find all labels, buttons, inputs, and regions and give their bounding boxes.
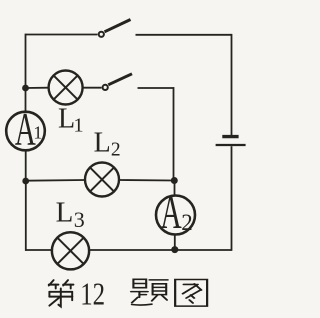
switch S2 — [103, 74, 132, 90]
wire left vertical, top to L1 node — [25, 34, 27, 88]
svg-text:L: L — [56, 197, 74, 229]
svg-text:A: A — [160, 186, 182, 239]
switch S1 — [99, 20, 131, 37]
ammeter A1 — [6, 104, 45, 156]
wire L2 to node — [119, 179, 175, 182]
svg-text:2: 2 — [111, 140, 121, 161]
wire A2 to bottom node — [174, 234, 176, 249]
node: junction of L2 branch — [22, 178, 29, 185]
wire corner down to node — [173, 87, 175, 180]
wire bottom left segment — [25, 249, 52, 251]
caption: 第 (glyph drawn as paths) — [49, 280, 74, 306]
wire bottom middle segment — [89, 249, 175, 251]
caption: 题 (glyph drawn as paths) — [131, 279, 168, 305]
wire node down to A2 — [174, 181, 176, 197]
label L3 — [56, 197, 85, 233]
wire top-right segment — [136, 34, 232, 36]
wire top-left segment — [26, 34, 98, 36]
wire S2 to corner — [138, 87, 174, 89]
battery B1 — [216, 137, 246, 145]
wire L1 to switch S2 — [83, 87, 102, 89]
wire right vertical lower — [231, 146, 233, 251]
lamp L2 — [85, 163, 119, 197]
svg-text:1: 1 — [33, 123, 42, 143]
svg-text:12: 12 — [80, 278, 105, 312]
wire left vertical, node to bottom — [25, 181, 27, 251]
wire left vertical, A1 to L2 node — [25, 150, 27, 181]
wire right vertical upper — [231, 34, 233, 135]
wire L1 branch left — [26, 87, 49, 89]
svg-text:3: 3 — [74, 207, 85, 232]
svg-text:1: 1 — [73, 115, 83, 137]
svg-text:2: 2 — [181, 210, 192, 235]
ammeter A2 — [156, 186, 195, 239]
wire L2 branch left — [26, 179, 85, 182]
lamp L3 — [52, 232, 89, 269]
caption: 图 (glyph drawn as paths) — [175, 279, 207, 306]
wire left vertical, node to A1 — [25, 88, 27, 112]
node: A2 to bottom wire — [171, 246, 178, 253]
lamp L1 — [49, 71, 83, 105]
node: junction of L1/L2 branches — [171, 177, 178, 184]
label L1 — [58, 104, 84, 137]
label L2 — [94, 128, 121, 161]
wire bottom right segment — [175, 249, 232, 251]
node: junction of L1 branch — [22, 85, 29, 92]
svg-text:L: L — [94, 128, 111, 159]
